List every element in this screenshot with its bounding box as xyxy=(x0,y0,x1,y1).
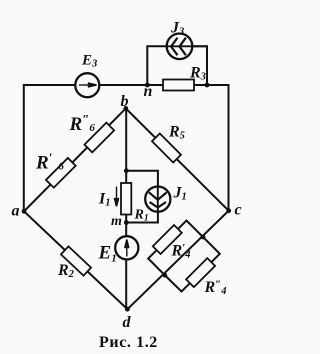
svg-text:Рис. 1.2: Рис. 1.2 xyxy=(99,334,158,351)
svg-text:c: c xyxy=(235,202,242,219)
svg-text:a: a xyxy=(12,203,20,220)
svg-text:m: m xyxy=(111,214,122,229)
svg-text:n: n xyxy=(144,83,153,100)
svg-text:d: d xyxy=(123,314,132,331)
svg-text:b: b xyxy=(121,93,129,110)
